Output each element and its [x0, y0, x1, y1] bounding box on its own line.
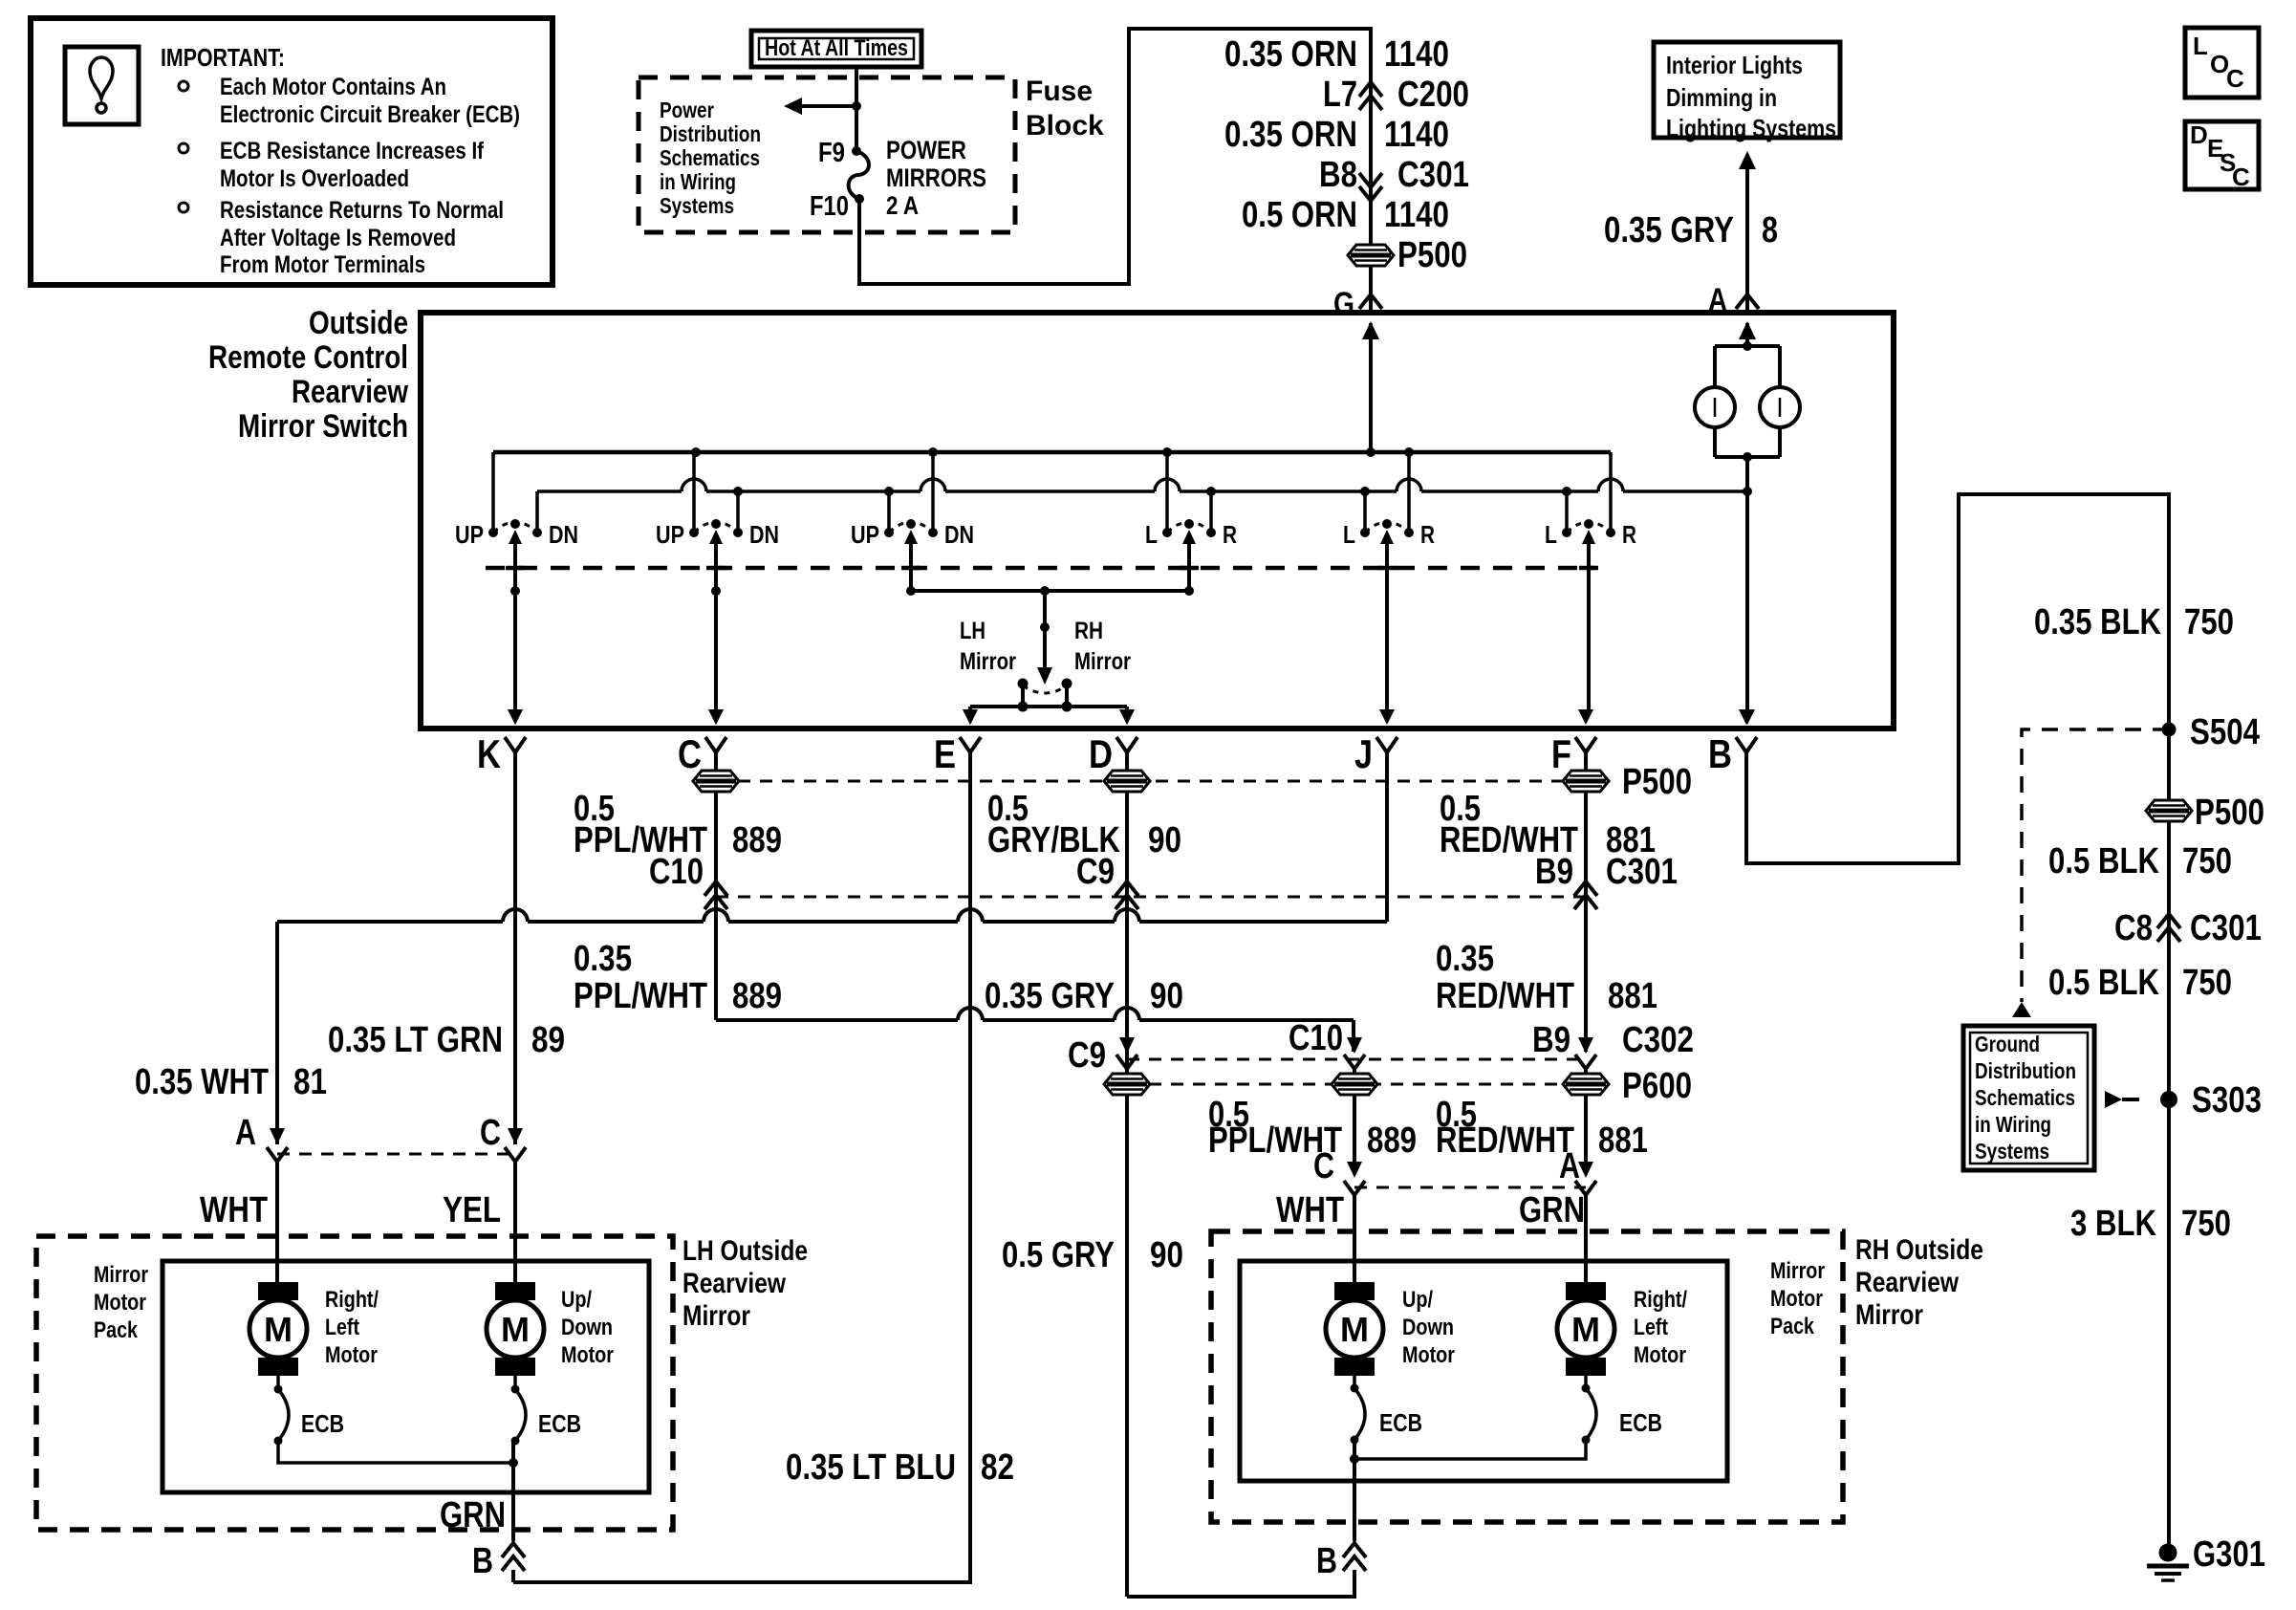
svg-text:1140: 1140	[1384, 195, 1449, 235]
svg-text:Down: Down	[561, 1315, 613, 1340]
Hot At All Times box	[751, 31, 921, 67]
Outside Remote Control Rearview Mirror Switch box	[421, 313, 1894, 729]
wire switch S5 wiper to pin J	[1385, 535, 1389, 711]
svg-text:3 BLK: 3 BLK	[2070, 1204, 2156, 1244]
svg-text:0.35 BLK: 0.35 BLK	[2034, 602, 2161, 642]
wire pin D down	[1125, 752, 1129, 1597]
svg-text:UP: UP	[851, 520, 879, 549]
svg-text:GRN: GRN	[1519, 1190, 1585, 1230]
LH ECB right/left	[276, 1374, 280, 1389]
svg-text:Schematics: Schematics	[660, 145, 760, 170]
svg-text:M: M	[501, 1310, 530, 1349]
exit arrow at A	[1739, 321, 1756, 339]
grommet P500 on feed	[1348, 245, 1394, 266]
svg-text:RED/WHT: RED/WHT	[1436, 976, 1574, 1016]
bullet 3	[179, 203, 188, 212]
svg-text:750: 750	[2182, 963, 2232, 1003]
svg-text:C: C	[2232, 163, 2250, 191]
svg-text:L: L	[1545, 520, 1557, 549]
svg-text:B9: B9	[1535, 852, 1573, 892]
svg-text:R: R	[1622, 520, 1636, 549]
svg-text:0.35 WHT: 0.35 WHT	[135, 1062, 269, 1102]
svg-text:Up/: Up/	[1402, 1287, 1433, 1313]
svg-text:Interior Lights: Interior Lights	[1666, 51, 1803, 79]
wire switch S3 wiper to selector feed	[909, 535, 913, 591]
switch S6 L/R RH	[1562, 528, 1571, 537]
svg-text:B: B	[1708, 731, 1732, 776]
svg-text:Pack: Pack	[1770, 1314, 1815, 1339]
supply entry arrow at G	[1362, 321, 1379, 339]
svg-text:LH: LH	[960, 618, 986, 644]
svg-text:Motor: Motor	[1770, 1286, 1823, 1312]
RH right/left motor	[1566, 1282, 1606, 1300]
svg-text:G301: G301	[2193, 1534, 2265, 1575]
wire switch S6 wiper to pin F	[1587, 535, 1591, 711]
svg-text:C10: C10	[649, 852, 704, 892]
svg-text:PPL/WHT: PPL/WHT	[574, 976, 707, 1016]
bullet 2	[179, 143, 188, 153]
switch S3 RH up/down	[884, 528, 894, 537]
svg-text:Schematics: Schematics	[1975, 1085, 2075, 1110]
svg-text:UP: UP	[656, 520, 684, 549]
ground wire main run	[2167, 494, 2171, 1545]
svg-text:90: 90	[1148, 820, 1181, 860]
svg-text:WHT: WHT	[1276, 1190, 1344, 1230]
connector pin F of mirror switch	[1578, 709, 1593, 725]
wire pin B to ground run	[1746, 494, 2169, 863]
svg-text:8: 8	[1762, 210, 1778, 250]
svg-text:82: 82	[981, 1447, 1014, 1488]
svg-text:C: C	[678, 731, 702, 776]
svg-text:Electronic Circuit Breaker (EC: Electronic Circuit Breaker (ECB)	[220, 101, 520, 128]
svg-text:L: L	[2193, 32, 2208, 60]
RH pin B	[1343, 1543, 1366, 1557]
fuse POWER MIRRORS 2A	[852, 146, 861, 156]
grommet at C	[693, 771, 739, 792]
LH up/down motor	[495, 1282, 535, 1300]
junction to power distribution	[852, 101, 861, 111]
grommet dashed row P500	[716, 780, 1586, 783]
fuse block dashed box	[639, 77, 1015, 232]
wire switch S4 wiper to selector feed	[1187, 535, 1191, 591]
mechanical link dashed line	[486, 566, 1594, 571]
svg-text:0.5 ORN: 0.5 ORN	[1242, 195, 1357, 235]
RH B wire to D run	[1127, 1570, 1354, 1597]
svg-text:889: 889	[732, 820, 782, 860]
selector output bar	[970, 705, 1127, 708]
svg-text:Motor: Motor	[325, 1342, 378, 1368]
switch S1 LH up/down	[488, 528, 498, 537]
svg-text:Remote Control: Remote Control	[208, 339, 408, 376]
svg-text:Distribution: Distribution	[660, 121, 761, 146]
svg-text:E: E	[934, 731, 956, 776]
svg-text:Motor: Motor	[561, 1342, 614, 1368]
svg-text:GRN: GRN	[440, 1495, 506, 1535]
svg-text:P500: P500	[1397, 235, 1467, 275]
svg-text:ECB Resistance Increases If: ECB Resistance Increases If	[220, 138, 485, 164]
LH pin B	[502, 1543, 525, 1557]
svg-text:Each Motor Contains An: Each Motor Contains An	[220, 74, 446, 100]
svg-text:Right/: Right/	[1634, 1287, 1687, 1313]
selector feed line	[911, 589, 1189, 593]
bus2 junction dots	[733, 487, 743, 496]
svg-text:0.5 BLK: 0.5 BLK	[2048, 841, 2159, 881]
svg-text:M: M	[1340, 1310, 1369, 1349]
svg-text:in Wiring: in Wiring	[1975, 1112, 2051, 1137]
svg-text:RED/WHT: RED/WHT	[1436, 1120, 1574, 1161]
svg-text:M: M	[1571, 1310, 1600, 1349]
RH ECB up/down	[1353, 1373, 1356, 1388]
svg-text:Mirror Switch: Mirror Switch	[238, 408, 408, 445]
RH mirror motor pack box	[1240, 1261, 1727, 1481]
svg-text:R: R	[1420, 520, 1435, 549]
horizontal run pin C to RH mirror pin C	[716, 1018, 958, 1022]
svg-text:MIRRORS: MIRRORS	[886, 163, 986, 192]
Interior Lights Dimming box	[1654, 42, 1840, 138]
illumination lamp pair	[1715, 344, 1780, 348]
svg-text:D: D	[1089, 731, 1113, 776]
svg-text:0.35 ORN: 0.35 ORN	[1224, 34, 1357, 75]
svg-text:Power: Power	[660, 98, 714, 122]
svg-text:J: J	[1354, 731, 1373, 776]
svg-text:C10: C10	[1289, 1018, 1343, 1058]
connector C301 pin C8	[2157, 914, 2180, 928]
grommet C9 at D wire	[1104, 1074, 1150, 1095]
svg-text:Resistance Returns To Normal: Resistance Returns To Normal	[220, 197, 504, 224]
wire switch S1 wiper to pin K	[513, 535, 517, 711]
svg-text:DN: DN	[749, 520, 779, 549]
LH motor common wire	[278, 1441, 513, 1463]
wire pin J down and left	[1385, 752, 1389, 922]
wire pin F down	[1584, 752, 1588, 1052]
svg-text:Mirror: Mirror	[960, 648, 1016, 675]
switch S5 L/R LH	[1360, 528, 1370, 537]
svg-text:C301: C301	[1397, 155, 1469, 195]
svg-text:Rearview: Rearview	[1855, 1267, 1960, 1298]
svg-text:S504: S504	[2190, 712, 2260, 752]
svg-text:DN: DN	[549, 520, 578, 549]
connector C301 pin B8	[1359, 173, 1382, 187]
svg-text:Motor: Motor	[1634, 1342, 1686, 1368]
wire pin E down	[513, 752, 970, 1582]
svg-text:RH Outside: RH Outside	[1855, 1234, 1983, 1266]
svg-text:F: F	[1551, 731, 1571, 776]
svg-text:89: 89	[531, 1020, 565, 1060]
svg-text:0.35 LT GRN: 0.35 LT GRN	[328, 1020, 503, 1060]
svg-text:ECB: ECB	[301, 1409, 344, 1438]
LH Outside Rearview Mirror dashed box	[36, 1236, 673, 1530]
grommet dashed row P600	[1127, 1083, 1589, 1086]
horizontal run pin J to LH mirror pin A	[277, 920, 503, 924]
svg-text:F9: F9	[818, 138, 845, 168]
svg-text:889: 889	[1367, 1120, 1417, 1161]
svg-text:Mirror: Mirror	[1074, 648, 1131, 675]
bus2 return bus	[537, 490, 682, 493]
mirror selector switch	[1018, 679, 1029, 689]
svg-text:POWER: POWER	[886, 136, 966, 164]
svg-text:Motor: Motor	[1402, 1342, 1455, 1368]
connector pin D of mirror switch	[1119, 709, 1135, 725]
svg-text:S303: S303	[2192, 1080, 2262, 1120]
wire switch S2 wiper to pin C	[714, 535, 718, 711]
svg-text:R: R	[1223, 520, 1237, 549]
svg-text:B: B	[1316, 1541, 1337, 1581]
svg-text:Systems: Systems	[660, 193, 734, 218]
svg-text:C: C	[2226, 64, 2244, 93]
svg-text:Ground: Ground	[1975, 1032, 2040, 1056]
RH motor common wire	[1354, 1440, 1586, 1459]
svg-text:L7: L7	[1323, 75, 1357, 115]
svg-text:Down: Down	[1402, 1315, 1454, 1340]
svg-text:90: 90	[1150, 1235, 1183, 1275]
IMPORTANT note box	[31, 18, 552, 285]
svg-text:C302: C302	[1622, 1020, 1694, 1060]
svg-text:Left: Left	[325, 1315, 359, 1340]
svg-text:IMPORTANT:: IMPORTANT:	[161, 43, 285, 72]
connector C200 pin L7	[1359, 82, 1382, 97]
svg-text:0.35: 0.35	[1436, 939, 1494, 979]
svg-text:1140: 1140	[1384, 115, 1449, 155]
svg-text:81: 81	[293, 1062, 327, 1102]
grommet C10 wire	[1332, 1074, 1377, 1095]
wire from Hot At All Times to fuse F9	[855, 67, 858, 151]
LH ECB up/down	[513, 1374, 517, 1389]
connector C301 row chevrons	[704, 881, 727, 896]
grommet P500 on ground wire	[2146, 800, 2192, 821]
switch contact drop wires	[491, 452, 495, 533]
bus1 supply bus	[493, 450, 1611, 455]
RH Outside Rearview Mirror dashed box	[1211, 1231, 1843, 1522]
svg-text:Rearview: Rearview	[292, 374, 408, 410]
svg-text:0.35 GRY: 0.35 GRY	[1604, 210, 1734, 250]
connector C301 dashed line	[716, 896, 1586, 899]
svg-text:1140: 1140	[1384, 34, 1449, 75]
svg-text:889: 889	[732, 976, 782, 1016]
svg-text:P500: P500	[2195, 793, 2264, 833]
svg-text:B8: B8	[1319, 155, 1357, 195]
svg-text:0.35 GRY: 0.35 GRY	[985, 976, 1115, 1016]
svg-text:Dimming in: Dimming in	[1666, 83, 1777, 112]
switch S4 L/R joystick	[1162, 528, 1172, 537]
svg-text:LH Outside: LH Outside	[682, 1235, 808, 1267]
svg-text:B9: B9	[1532, 1020, 1570, 1060]
connector pin E of mirror switch	[963, 709, 978, 725]
svg-text:G: G	[1333, 286, 1354, 322]
svg-text:Right/: Right/	[325, 1287, 379, 1313]
dashed branch to ground distribution	[2022, 729, 2169, 1002]
wire to interior lights dimming	[1745, 155, 1749, 311]
LOC box	[2185, 28, 2259, 98]
svg-text:C200: C200	[1397, 75, 1469, 115]
Ground Distribution Schematics box	[1963, 1026, 2094, 1170]
svg-text:Up/: Up/	[561, 1287, 592, 1313]
svg-text:ECB: ECB	[538, 1409, 581, 1438]
svg-text:ECB: ECB	[1619, 1408, 1662, 1437]
svg-text:WHT: WHT	[200, 1190, 268, 1230]
connector pin J of mirror switch	[1379, 709, 1395, 725]
svg-text:ECB: ECB	[1379, 1408, 1422, 1437]
svg-text:0.35 ORN: 0.35 ORN	[1224, 115, 1357, 155]
svg-text:L: L	[1343, 520, 1355, 549]
wire from lamps to pin B	[1745, 457, 1749, 711]
caution bulb icon box	[65, 47, 139, 124]
wire from fuse F10 looping to C200 feed	[859, 29, 1371, 313]
svg-text:0.35 LT BLU: 0.35 LT BLU	[786, 1447, 956, 1488]
svg-text:90: 90	[1150, 976, 1183, 1016]
svg-text:Motor Is Overloaded: Motor Is Overloaded	[220, 165, 409, 192]
svg-text:750: 750	[2181, 1204, 2231, 1244]
svg-text:Block: Block	[1026, 110, 1104, 141]
svg-text:750: 750	[2182, 841, 2232, 881]
svg-text:881: 881	[1608, 976, 1657, 1016]
grommet at F	[1563, 771, 1609, 792]
svg-text:881: 881	[1598, 1120, 1648, 1161]
svg-text:RH: RH	[1074, 618, 1103, 644]
DESC box	[2185, 121, 2259, 189]
caution bulb icon	[90, 57, 113, 98]
svg-text:Left: Left	[1634, 1315, 1668, 1340]
svg-text:C301: C301	[1606, 852, 1678, 892]
svg-text:Mirror: Mirror	[94, 1262, 148, 1288]
svg-text:D: D	[2190, 120, 2208, 149]
svg-text:Mirror: Mirror	[1855, 1299, 1923, 1331]
splice S303	[2160, 1091, 2177, 1108]
svg-text:750: 750	[2184, 602, 2234, 642]
svg-text:F10: F10	[810, 191, 849, 222]
svg-text:After Voltage Is Removed: After Voltage Is Removed	[220, 225, 456, 251]
bus1 junction dots	[691, 447, 701, 457]
svg-text:0.5 BLK: 0.5 BLK	[2048, 963, 2159, 1003]
connector C302 row	[1119, 1037, 1135, 1054]
exit arrows K C B	[508, 709, 523, 725]
svg-text:P600: P600	[1622, 1066, 1692, 1106]
switch S2 common up/down	[689, 528, 699, 537]
wire pin K to LH mirror pin C	[513, 752, 517, 1144]
svg-text:2 A: 2 A	[886, 191, 919, 220]
connector C302 dashed line	[1127, 1058, 1586, 1061]
bullet 1	[179, 81, 188, 91]
splice S504	[2162, 723, 2177, 737]
svg-text:M: M	[264, 1310, 292, 1349]
svg-text:B: B	[472, 1541, 493, 1581]
svg-text:Mirror: Mirror	[1770, 1258, 1825, 1284]
LH mirror motor pack box	[162, 1261, 649, 1492]
svg-text:P500: P500	[1622, 762, 1692, 802]
LH right/left motor	[258, 1282, 298, 1300]
svg-text:Outside: Outside	[309, 305, 408, 341]
svg-text:UP: UP	[455, 520, 484, 549]
svg-text:0.5 GRY: 0.5 GRY	[1002, 1235, 1115, 1275]
svg-text:Pack: Pack	[94, 1317, 139, 1343]
connector pin C of mirror switch	[708, 709, 724, 725]
svg-text:Hot At All Times: Hot At All Times	[765, 35, 908, 61]
svg-text:From Motor Terminals: From Motor Terminals	[220, 251, 425, 278]
svg-text:0.35: 0.35	[574, 939, 632, 979]
grommet P600 at F wire	[1563, 1074, 1609, 1095]
svg-text:Fuse: Fuse	[1026, 76, 1093, 107]
svg-text:A: A	[235, 1113, 256, 1153]
svg-text:C301: C301	[2190, 908, 2262, 948]
svg-text:C8: C8	[2114, 908, 2153, 948]
svg-text:K: K	[477, 731, 501, 776]
RH up/down motor	[1334, 1282, 1375, 1300]
svg-text:Systems: Systems	[1975, 1139, 2049, 1164]
svg-text:C: C	[480, 1113, 501, 1153]
connector pin K of mirror switch	[508, 709, 523, 725]
ground G301	[2159, 1544, 2177, 1562]
off page arrow to S303	[2105, 1091, 2122, 1108]
svg-text:Rearview: Rearview	[682, 1268, 787, 1299]
wire feed to mirror selector	[1043, 591, 1047, 669]
svg-text:DN: DN	[944, 520, 974, 549]
svg-text:C9: C9	[1076, 852, 1115, 892]
svg-text:Motor: Motor	[94, 1290, 146, 1316]
connector pin B of mirror switch	[1739, 709, 1754, 725]
svg-text:L: L	[1145, 520, 1158, 549]
grommet at D	[1104, 771, 1150, 792]
wire pin C down to C301	[714, 752, 718, 1020]
svg-text:in Wiring: in Wiring	[660, 169, 736, 194]
svg-text:C: C	[1313, 1146, 1334, 1186]
svg-text:YEL: YEL	[443, 1190, 501, 1230]
svg-text:Mirror: Mirror	[682, 1300, 750, 1332]
svg-text:Distribution: Distribution	[1975, 1058, 2076, 1083]
svg-text:Lighting Systems: Lighting Systems	[1666, 114, 1836, 142]
RH ECB right/left	[1584, 1373, 1588, 1388]
svg-text:C9: C9	[1068, 1035, 1106, 1076]
